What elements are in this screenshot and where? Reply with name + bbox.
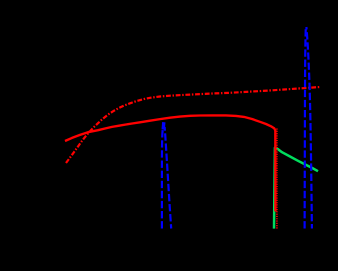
blue dashed resonance peak 1 right flank [165, 127, 172, 229]
blue dashed resonance peak 2 left flank [305, 27, 306, 229]
red dash-dot upper curve [66, 87, 320, 163]
blue dashed resonance peak 1 left flank [162, 127, 163, 229]
green curve: vertical rise then sloped tail [274, 147, 318, 228]
red dotted vertical edge [276, 129, 278, 229]
red solid curve with vertical drop [65, 115, 275, 211]
blue dashed resonance peak 2 right flank [306, 27, 312, 229]
blue resonance peak 1 tip [161, 122, 165, 129]
